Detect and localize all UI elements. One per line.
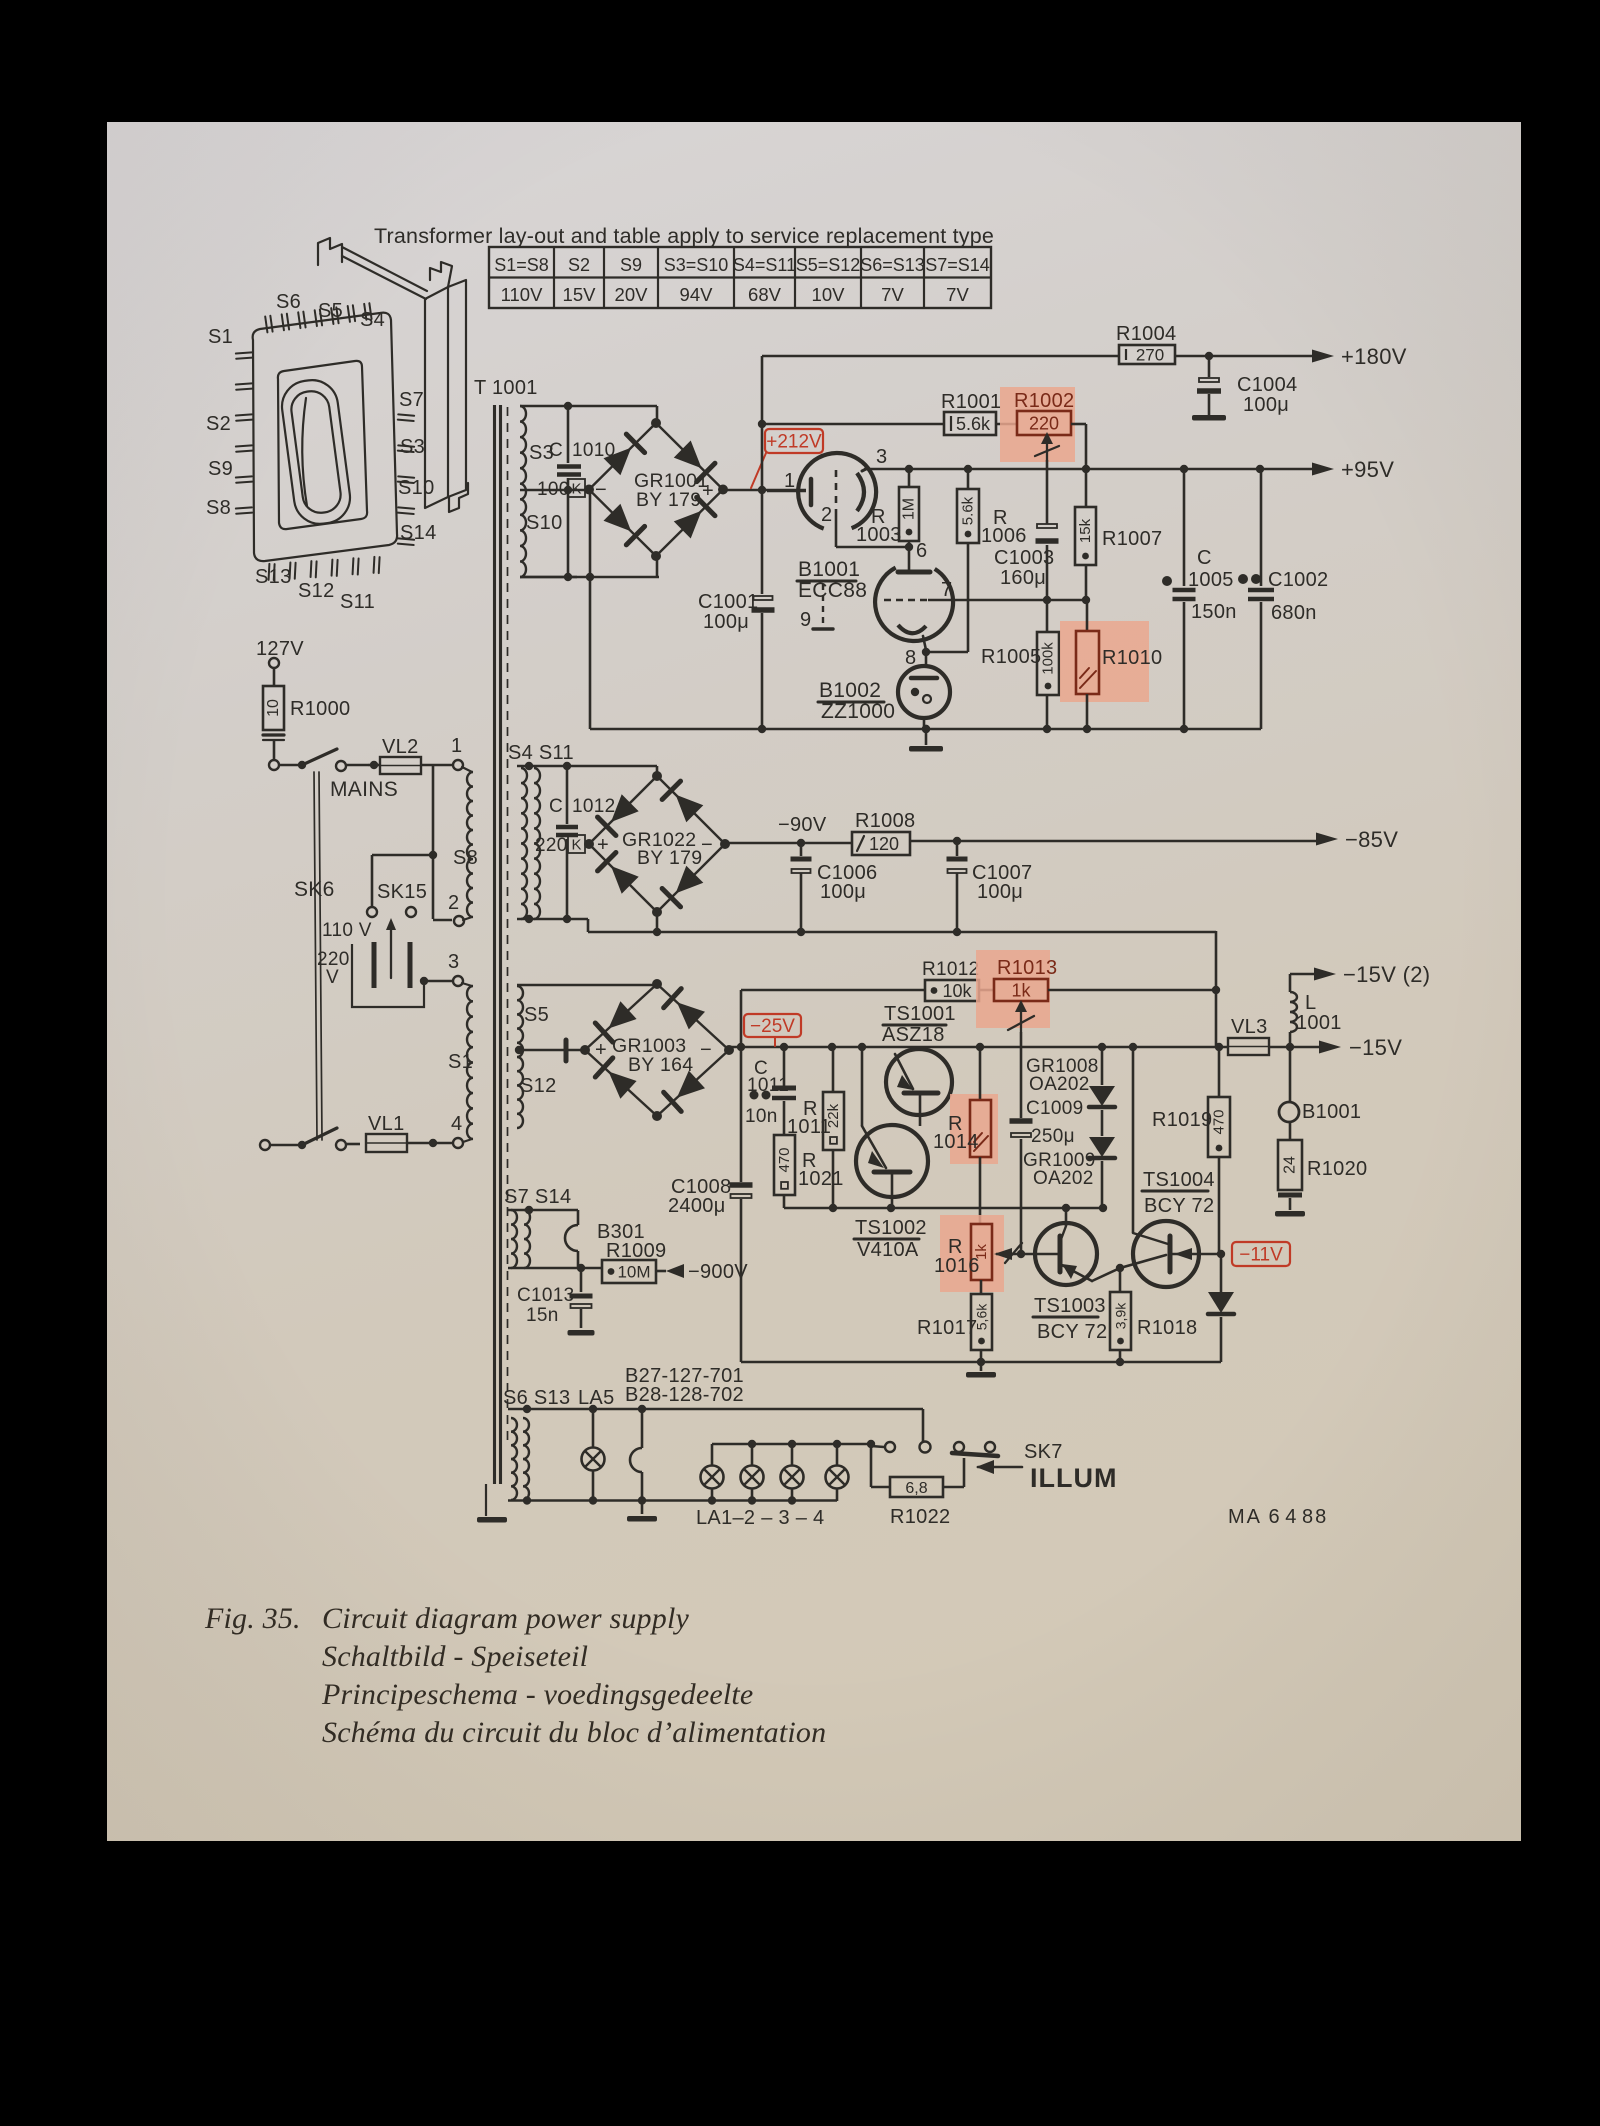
svg-text:C1009: C1009: [1026, 1098, 1084, 1119]
svg-text:BCY 72: BCY 72: [1144, 1195, 1214, 1217]
svg-text:1k: 1k: [1011, 980, 1031, 1000]
svg-text:R1007: R1007: [1102, 528, 1162, 550]
svg-text:S10: S10: [398, 477, 435, 499]
svg-text:94V: 94V: [680, 284, 714, 305]
svg-text:S5: S5: [524, 1004, 549, 1026]
svg-text:S8: S8: [206, 497, 231, 519]
svg-text:VL1: VL1: [368, 1113, 405, 1135]
svg-text:S11: S11: [340, 591, 375, 613]
svg-text:C1003: C1003: [994, 547, 1054, 569]
svg-text:270: 270: [1136, 346, 1164, 365]
svg-text:TS1004: TS1004: [1143, 1169, 1215, 1191]
svg-text:220: 220: [535, 835, 568, 856]
svg-text:C: C: [549, 440, 563, 461]
svg-text:5.6k: 5.6k: [960, 496, 977, 525]
svg-text:S10: S10: [526, 512, 563, 534]
svg-text:Fig. 35.: Fig. 35.: [204, 1602, 301, 1635]
svg-text:B1002: B1002: [819, 679, 881, 702]
svg-text:2: 2: [448, 892, 459, 914]
svg-text:3,9k: 3,9k: [1113, 1302, 1129, 1329]
svg-text:470: 470: [776, 1147, 793, 1172]
svg-text:10V: 10V: [812, 284, 846, 305]
svg-text:R1018: R1018: [1137, 1317, 1197, 1339]
svg-text:1006: 1006: [981, 525, 1027, 547]
svg-text:−25V: −25V: [750, 1016, 795, 1037]
svg-text:6,8: 6,8: [905, 1480, 927, 1497]
svg-text:T 1001: T 1001: [474, 377, 538, 399]
svg-text:120: 120: [869, 834, 899, 854]
svg-text:7: 7: [941, 579, 952, 601]
svg-text:7V: 7V: [881, 284, 904, 305]
svg-text:+: +: [597, 834, 609, 856]
svg-text:110V: 110V: [501, 284, 543, 305]
svg-text:15V: 15V: [563, 284, 597, 305]
svg-text:S12: S12: [298, 580, 335, 602]
svg-text:+212V: +212V: [766, 432, 822, 453]
svg-text:15n: 15n: [526, 1305, 559, 1326]
svg-text:Circuit diagram power supply: Circuit diagram power supply: [322, 1602, 689, 1635]
svg-text:C1013: C1013: [517, 1285, 575, 1306]
svg-text:1021: 1021: [798, 1168, 844, 1190]
svg-text:S1: S1: [208, 326, 233, 348]
svg-text:S4 S11: S4 S11: [508, 742, 574, 764]
svg-text:100μ: 100μ: [820, 881, 866, 903]
svg-text:R1017: R1017: [917, 1317, 977, 1339]
svg-text:100μ: 100μ: [1243, 394, 1289, 416]
svg-text:MAINS: MAINS: [330, 778, 398, 801]
svg-text:Schaltbild - Speiseteil: Schaltbild - Speiseteil: [322, 1640, 588, 1673]
svg-text:+95V: +95V: [1341, 457, 1394, 482]
svg-text:Schéma du circuit du bloc d’al: Schéma du circuit du bloc d’alimentation: [322, 1716, 826, 1749]
svg-text:250μ: 250μ: [1031, 1126, 1075, 1147]
svg-text:100μ: 100μ: [703, 611, 749, 633]
svg-text:10n: 10n: [745, 1106, 778, 1127]
svg-text:R1019: R1019: [1152, 1109, 1212, 1131]
svg-text:100k: 100k: [1040, 642, 1057, 675]
svg-text:S4: S4: [360, 309, 385, 331]
svg-text:S5: S5: [318, 300, 343, 322]
svg-text:1016: 1016: [934, 1255, 980, 1277]
svg-text:OA202: OA202: [1033, 1168, 1094, 1189]
svg-text:15k: 15k: [1077, 518, 1094, 543]
svg-text:110 V: 110 V: [322, 920, 372, 941]
svg-text:V: V: [326, 967, 339, 988]
svg-text:R1020: R1020: [1307, 1158, 1367, 1180]
svg-text:S12: S12: [520, 1075, 557, 1097]
svg-text:B301: B301: [597, 1221, 645, 1243]
svg-text:1: 1: [451, 735, 462, 757]
svg-text:V410A: V410A: [857, 1239, 919, 1261]
svg-text:5.6k: 5.6k: [956, 414, 991, 434]
svg-text:160μ: 160μ: [1000, 567, 1046, 589]
svg-text:3: 3: [448, 951, 459, 973]
svg-text:−: −: [701, 834, 713, 856]
svg-text:LA1–2 – 3 – 4: LA1–2 – 3 – 4: [696, 1507, 824, 1529]
svg-text:4: 4: [451, 1113, 462, 1135]
svg-text:LA5: LA5: [578, 1387, 615, 1409]
svg-text:−85V: −85V: [1345, 827, 1398, 852]
svg-text:OA202: OA202: [1029, 1074, 1090, 1095]
svg-text:S1: S1: [448, 1051, 473, 1073]
svg-text:R1004: R1004: [1116, 323, 1176, 345]
svg-text:100μ: 100μ: [977, 881, 1023, 903]
svg-text:1014: 1014: [933, 1131, 979, 1153]
svg-text:ILLUM: ILLUM: [1030, 1463, 1117, 1493]
svg-text:S7: S7: [399, 389, 424, 411]
svg-text:9: 9: [800, 609, 811, 631]
svg-text:S14: S14: [400, 522, 437, 544]
svg-text:−11V: −11V: [1239, 1245, 1283, 1266]
svg-text:S3: S3: [400, 436, 425, 458]
svg-text:K: K: [571, 481, 581, 498]
svg-text:S7 S14: S7 S14: [504, 1186, 571, 1208]
svg-text:S8: S8: [453, 847, 478, 869]
svg-text:R1000: R1000: [290, 698, 350, 720]
svg-text:1: 1: [784, 470, 795, 492]
svg-text:2400μ: 2400μ: [668, 1195, 726, 1217]
svg-text:L: L: [1305, 992, 1316, 1014]
svg-text:BY 179: BY 179: [636, 489, 701, 511]
svg-text:R1022: R1022: [890, 1506, 950, 1528]
svg-text:24: 24: [1282, 1156, 1299, 1174]
svg-text:R1008: R1008: [855, 810, 915, 832]
svg-text:100: 100: [537, 479, 570, 500]
svg-text:+: +: [595, 1039, 607, 1061]
svg-text:1M: 1M: [901, 498, 918, 520]
svg-text:S2: S2: [568, 255, 590, 275]
svg-text:C: C: [549, 796, 563, 817]
svg-text:R1012: R1012: [922, 959, 980, 980]
svg-text:ASZ18: ASZ18: [882, 1024, 945, 1046]
svg-text:S1=S8: S1=S8: [494, 255, 549, 275]
svg-text:TS1003: TS1003: [1034, 1295, 1106, 1317]
svg-text:ZZ1000: ZZ1000: [821, 700, 895, 723]
svg-text:SK7: SK7: [1024, 1441, 1063, 1463]
svg-text:10: 10: [265, 699, 282, 717]
svg-text:S7=S14: S7=S14: [925, 255, 990, 275]
svg-text:C1001: C1001: [698, 591, 758, 613]
svg-text:SK15: SK15: [377, 881, 427, 903]
svg-text:150n: 150n: [1191, 601, 1237, 623]
svg-text:S13: S13: [255, 566, 292, 588]
svg-text:S9: S9: [208, 458, 233, 480]
svg-text:VL2: VL2: [382, 736, 419, 758]
svg-text:S6=S13: S6=S13: [860, 255, 925, 275]
svg-text:S3=S10: S3=S10: [664, 255, 729, 275]
svg-text:S5=S12: S5=S12: [796, 255, 861, 275]
svg-text:10k: 10k: [942, 981, 972, 1001]
svg-text:127V: 127V: [256, 638, 304, 660]
svg-text:Transformer lay-out and table: Transformer lay-out and table apply to s…: [374, 224, 994, 248]
svg-text:20V: 20V: [615, 284, 649, 305]
svg-text:1003: 1003: [856, 524, 902, 546]
svg-text:C1002: C1002: [1268, 569, 1328, 591]
svg-text:MA 6 4 88: MA 6 4 88: [1228, 1506, 1328, 1528]
svg-text:1005: 1005: [1188, 569, 1234, 591]
svg-text:R1005: R1005: [981, 646, 1041, 668]
svg-text:−15V (2): −15V (2): [1343, 962, 1430, 987]
svg-text:K: K: [571, 837, 581, 854]
svg-text:7V: 7V: [946, 284, 969, 305]
svg-text:470: 470: [1211, 1109, 1228, 1134]
svg-text:Principeschema - voedingsgedee: Principeschema - voedingsgedeelte: [321, 1678, 753, 1711]
svg-text:R1010: R1010: [1102, 647, 1162, 669]
svg-text:C: C: [1197, 547, 1212, 569]
svg-text:S2: S2: [206, 413, 231, 435]
svg-text:TS1001: TS1001: [884, 1003, 956, 1025]
svg-text:680n: 680n: [1271, 602, 1317, 624]
svg-text:SK6: SK6: [294, 878, 335, 901]
svg-text:−: −: [700, 1039, 712, 1061]
svg-text:B28-128-702: B28-128-702: [625, 1384, 744, 1406]
svg-text:ECC88: ECC88: [798, 579, 867, 602]
svg-text:VL3: VL3: [1231, 1016, 1268, 1038]
svg-text:S6 S13: S6 S13: [503, 1387, 570, 1409]
svg-text:6: 6: [916, 540, 927, 562]
svg-text:S6: S6: [276, 291, 301, 313]
svg-text:TS1002: TS1002: [855, 1217, 927, 1239]
svg-text:−90V: −90V: [778, 814, 827, 836]
svg-text:−15V: −15V: [1349, 1035, 1402, 1060]
svg-text:R1013: R1013: [997, 957, 1057, 979]
svg-text:BY 179: BY 179: [637, 847, 702, 869]
svg-text:BCY 72: BCY 72: [1037, 1321, 1107, 1343]
svg-text:S4=S11: S4=S11: [733, 255, 796, 275]
svg-text:BY 164: BY 164: [628, 1054, 693, 1076]
svg-text:R1009: R1009: [606, 1240, 666, 1262]
svg-text:+180V: +180V: [1341, 344, 1407, 369]
svg-text:10M: 10M: [617, 1263, 650, 1282]
svg-text:−: −: [595, 479, 607, 501]
svg-text:B1001: B1001: [1302, 1101, 1361, 1123]
svg-text:1012: 1012: [572, 796, 615, 817]
svg-text:−900V: −900V: [688, 1261, 748, 1283]
svg-text:R1001: R1001: [941, 391, 1001, 413]
svg-text:B1001: B1001: [798, 558, 860, 581]
svg-text:C1004: C1004: [1237, 374, 1297, 396]
svg-text:68V: 68V: [748, 284, 782, 305]
svg-text:1011: 1011: [787, 1116, 831, 1138]
svg-text:220: 220: [1029, 413, 1059, 433]
svg-text:3: 3: [876, 446, 887, 468]
svg-text:1001: 1001: [1296, 1012, 1342, 1034]
svg-text:S9: S9: [620, 255, 642, 275]
svg-text:R1002: R1002: [1014, 390, 1074, 412]
svg-text:2: 2: [821, 504, 832, 526]
